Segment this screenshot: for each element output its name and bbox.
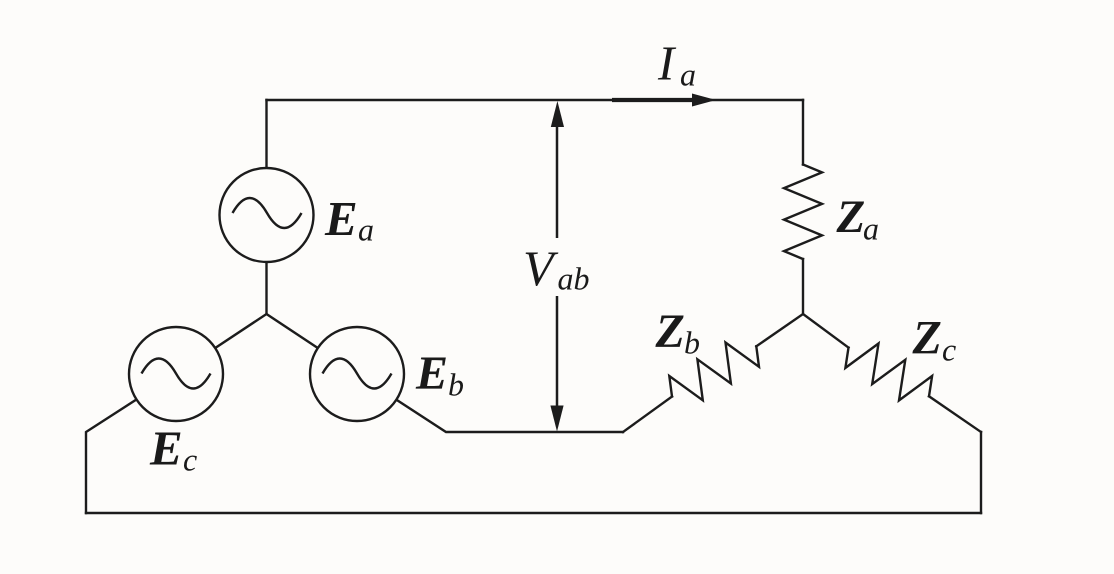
svg-text:Z: Z [655,305,685,358]
wire top (a-phase): from source top to load top [267,99,804,101]
wire load neutral to Zc [803,314,849,348]
svg-text:a: a [680,57,696,93]
wire bottom (c-phase return) [86,512,981,514]
wire load top lead [802,100,804,165]
svg-text:ab: ab [558,261,590,297]
ac source Eb [310,327,404,421]
svg-text:I: I [657,36,677,91]
svg-text:Z: Z [912,312,942,365]
wire Za to load neutral [802,259,804,314]
resistor Za [784,165,822,260]
voltage arrow Vab (double-headed) [550,101,564,432]
wire left vertical through source Ea [265,100,267,314]
wire Zc to right vertical [929,396,981,432]
wire from neutral through Ec to bottom-left corner [86,314,267,513]
ac source Ec [129,327,223,421]
wire Zb to b-terminal [623,397,672,433]
svg-text:c: c [183,442,197,478]
resistor Zc [845,344,932,401]
ac source Ea [220,168,314,262]
resistor Zb [669,343,759,401]
svg-text:E: E [415,347,448,400]
wire load neutral to Zb [756,314,803,346]
svg-text:Z: Z [836,191,866,243]
svg-text:c: c [942,332,956,368]
current arrow Ia [612,94,716,107]
svg-text:b: b [448,367,464,403]
svg-text:V: V [523,240,559,296]
svg-text:a: a [358,212,374,248]
wire from neutral through Eb to b-terminal wire [267,314,624,432]
svg-text:E: E [324,191,358,246]
svg-text:a: a [863,211,879,247]
svg-text:b: b [684,325,700,361]
wire right vertical (c-side of load) [980,432,982,513]
svg-text:E: E [149,421,183,476]
